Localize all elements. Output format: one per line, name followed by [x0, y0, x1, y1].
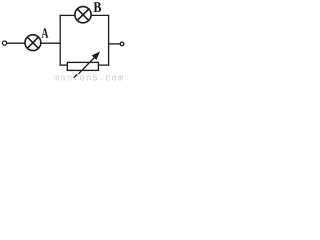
- watermark manfen5.com (darker part): [80, 75, 123, 81]
- wire top branch left: [60, 14, 75, 16]
- lamp A: [25, 35, 41, 51]
- wire bottom branch right: [98, 64, 109, 66]
- wire top branch right: [91, 14, 109, 16]
- rheostat arrow head: [92, 52, 100, 61]
- wire terminal-left to lamp A: [7, 42, 25, 44]
- rheostat arrow shaft: [79, 56, 96, 74]
- rheostat arrow tail dash: [74, 74, 78, 78]
- wire right bus junction: [108, 15, 110, 66]
- rheostat R resistor box: [67, 62, 98, 70]
- lamp B: [75, 7, 91, 23]
- label A: [41, 28, 48, 38]
- wire main right to terminal: [108, 43, 120, 45]
- label B: [94, 2, 102, 12]
- terminal right: [120, 42, 124, 46]
- wire bottom branch left: [60, 64, 68, 66]
- terminal left: [2, 41, 6, 45]
- wire lamp A to left bus: [41, 42, 61, 44]
- wire left bus junction: [59, 15, 61, 66]
- watermark manfen5.com (light part): [54, 74, 78, 81]
